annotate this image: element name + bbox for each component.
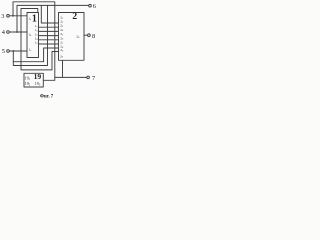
- svg-text:Фиг. 7: Фиг. 7: [40, 94, 54, 99]
- svg-text:6: 6: [93, 3, 96, 10]
- svg-text:3: 3: [1, 13, 4, 20]
- svg-text:8: 8: [92, 33, 95, 40]
- svg-text:19: 19: [34, 72, 42, 81]
- svg-text:1: 1: [32, 13, 37, 24]
- svg-text:2: 2: [72, 11, 77, 22]
- svg-text:5: 5: [2, 48, 5, 55]
- svg-text:1c: 1c: [28, 48, 31, 52]
